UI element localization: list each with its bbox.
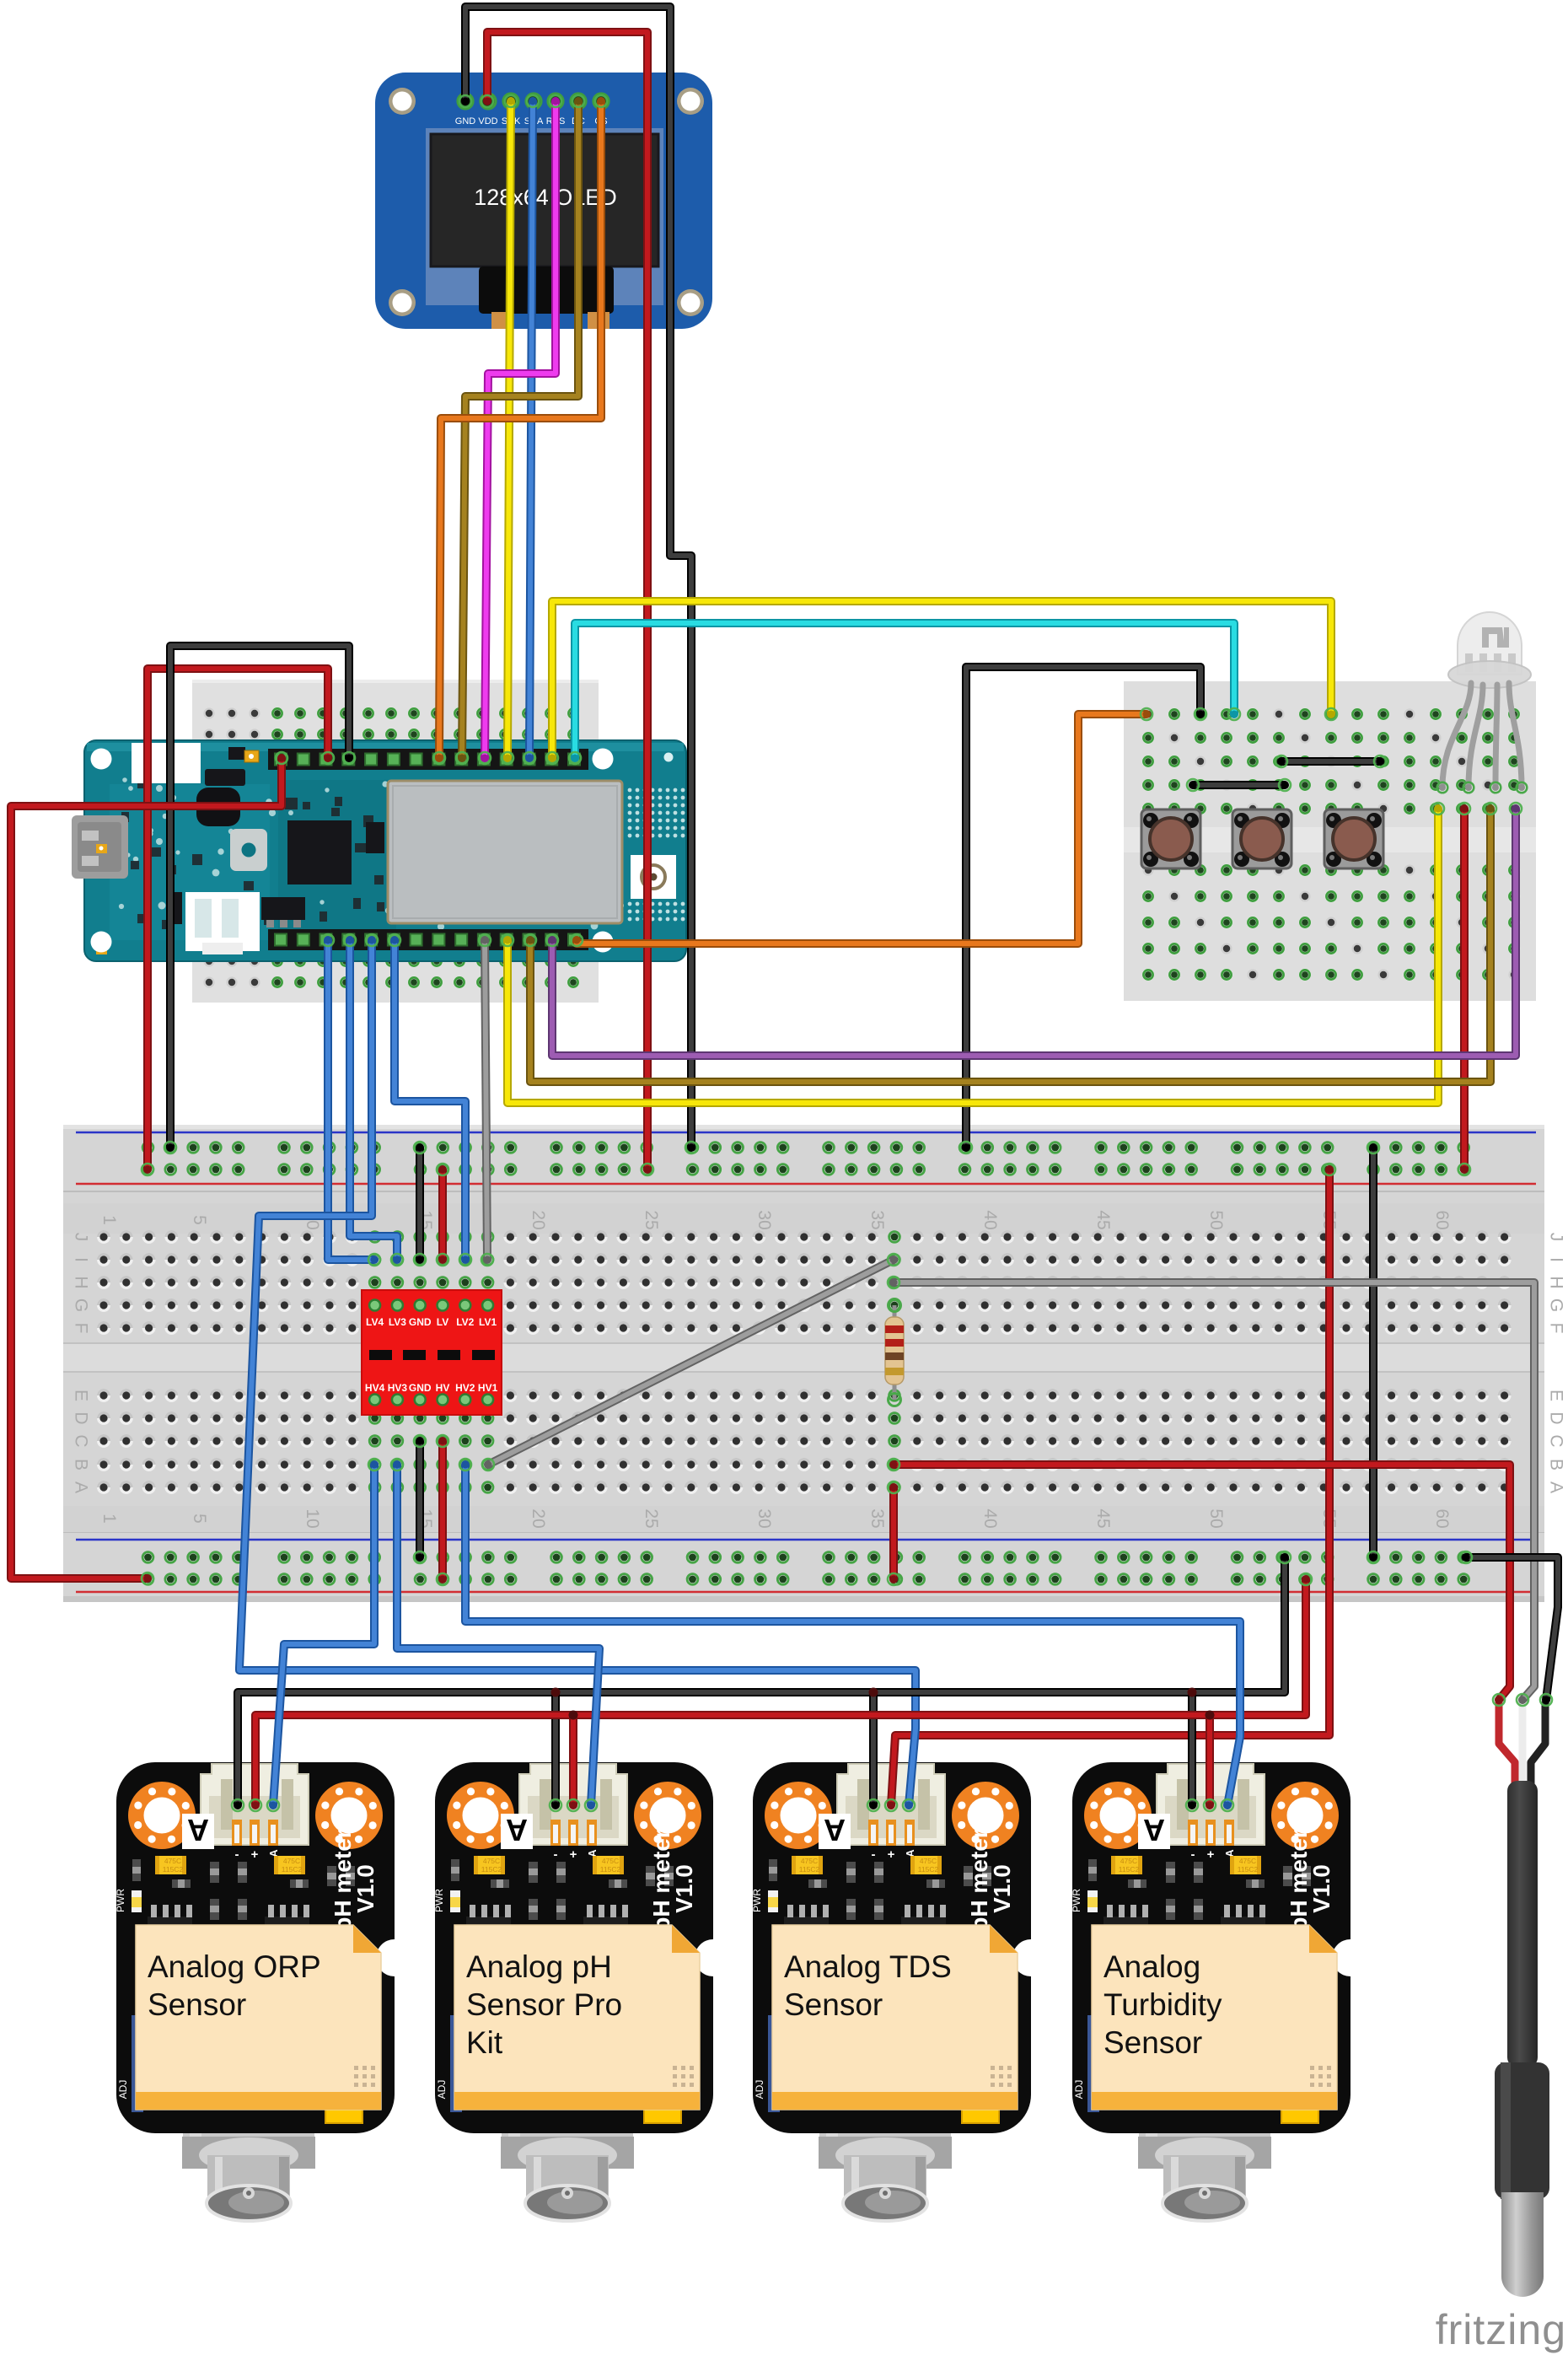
push button S1 (1141, 809, 1200, 868)
analog sensor module (Analog TDS) (751, 1762, 1050, 2221)
svg-text:+: + (251, 1847, 259, 1862)
svg-text:475C: 475C (483, 1857, 500, 1865)
wire purple MKR to LED blue pin (546, 803, 1522, 1056)
svg-text:I: I (71, 1257, 90, 1262)
svg-text:60: 60 (1432, 1210, 1452, 1229)
svg-text:PWR: PWR (751, 1889, 763, 1912)
svg-text:115C2: 115C2 (1119, 1865, 1140, 1874)
wire blue MKR A2 to LV3 (344, 934, 403, 1266)
sensor label note (136, 1925, 381, 2110)
wire blue HV3 to sensor2 A (391, 1459, 599, 1811)
svg-text:PWR: PWR (1071, 1889, 1082, 1912)
svg-text:-: - (235, 1847, 239, 1862)
svg-text:GND: GND (455, 116, 476, 126)
svg-text:VDD: VDD (478, 116, 497, 126)
svg-text:V1.0: V1.0 (352, 1864, 379, 1913)
svg-text:F: F (71, 1323, 90, 1334)
wire black button jumper 2 (1187, 779, 1291, 791)
svg-text:H: H (71, 1276, 90, 1288)
wire orange OLED CS (433, 95, 607, 764)
svg-text:128x64 OLED: 128x64 OLED (474, 185, 617, 210)
svg-text:PWR: PWR (433, 1889, 445, 1912)
svg-text:A: A (187, 1813, 209, 1847)
svg-text:ADJ: ADJ (1073, 2080, 1085, 2100)
wire black buttons loop to - rail (960, 667, 1206, 1153)
buttons breadboard holes (1142, 708, 1521, 981)
svg-text:A: A (506, 1813, 528, 1847)
RGB LED (1437, 612, 1531, 793)
svg-text:F: F (1546, 1323, 1565, 1334)
wire red LLC HV to bottom + rail (437, 1435, 448, 1585)
svg-text:115C2: 115C2 (1238, 1865, 1259, 1874)
svg-text:B: B (1546, 1459, 1565, 1471)
svg-text:475C: 475C (1120, 1857, 1137, 1865)
sensor label note (772, 1925, 1018, 2110)
svg-text:Analog TDS: Analog TDS (784, 1949, 952, 1984)
svg-text:115C2: 115C2 (918, 1865, 939, 1874)
svg-text:HV3: HV3 (388, 1382, 408, 1394)
svg-text:30: 30 (754, 1210, 774, 1229)
wire red OLED VDD to + rail (481, 32, 653, 1175)
svg-text:Analog: Analog (1104, 1949, 1200, 1984)
svg-text:H: H (1546, 1276, 1565, 1288)
wire black LLC GND to bottom - rail (414, 1435, 426, 1563)
wire blue HV2 to sensor4 A (459, 1459, 1240, 1811)
svg-text:30: 30 (754, 1508, 774, 1528)
wire blue MKR A4 to LV2 (389, 934, 471, 1266)
wire olive OLED DC (456, 95, 584, 764)
svg-text:5: 5 (190, 1215, 209, 1225)
svg-text:G: G (1546, 1298, 1565, 1312)
svg-text:HV: HV (436, 1382, 450, 1394)
svg-text:475C: 475C (1239, 1857, 1256, 1865)
svg-text:G: G (71, 1298, 90, 1312)
svg-text:E: E (71, 1390, 90, 1401)
wire junction (569, 1711, 578, 1720)
svg-text:+: + (570, 1847, 577, 1862)
svg-text:LV3: LV3 (389, 1316, 406, 1328)
svg-text:10: 10 (303, 1508, 322, 1528)
svg-text:V1.0: V1.0 (989, 1864, 1015, 1913)
analog sensor module (Analog) (1071, 1762, 1369, 2221)
wire red top rail to sensor3 + bus (885, 1164, 1335, 1811)
wire gray MKR pin to col18 (479, 934, 493, 1266)
svg-text:475C: 475C (920, 1857, 937, 1865)
svg-text:45: 45 (1093, 1508, 1113, 1528)
wire blue HV4 to sensor1 A (267, 1459, 380, 1811)
svg-text:PWR: PWR (115, 1889, 126, 1912)
wire black - rail to LLC GND (414, 1142, 426, 1266)
sensor label note (454, 1925, 700, 2110)
wire gray col36 to probe data (888, 1277, 1534, 1706)
wire black sensor3 gnd stub (867, 1692, 879, 1811)
wire red + rail to LLC LV (437, 1164, 448, 1266)
wire gray diagonal col18 to col36 (482, 1254, 899, 1471)
push button S3 (1324, 809, 1383, 868)
svg-text:Analog ORP: Analog ORP (148, 1949, 321, 1984)
wire junction (1188, 1688, 1197, 1697)
svg-text:115C2: 115C2 (282, 1865, 303, 1874)
resistor R1 (col 36) (885, 1299, 904, 1406)
mini breadboard holes (203, 707, 579, 989)
svg-text:475C: 475C (602, 1857, 619, 1865)
svg-text:Sensor: Sensor (1104, 2025, 1202, 2060)
MKR bottom header (268, 929, 588, 950)
svg-text:115C2: 115C2 (481, 1865, 502, 1874)
buttons mini breadboard (1124, 681, 1536, 1001)
svg-text:D: D (71, 1411, 90, 1424)
svg-text:1: 1 (99, 1215, 119, 1225)
wire magenta OLED RES (479, 95, 561, 764)
svg-text:HV2: HV2 (455, 1382, 475, 1394)
wire red sensor2 pwr stub (567, 1715, 579, 1811)
sensor label note (1092, 1925, 1337, 2110)
wire cyan MKR to button2 (569, 623, 1240, 764)
svg-text:-: - (872, 1847, 876, 1862)
svg-text:60: 60 (1432, 1508, 1452, 1528)
svg-text:ADJ: ADJ (754, 2080, 765, 2100)
wire olive MKR to LED green pin (524, 803, 1496, 1082)
svg-text:GND: GND (409, 1316, 432, 1328)
svg-text:A: A (824, 1813, 846, 1847)
svg-text:475C: 475C (801, 1857, 818, 1865)
svg-text:50: 50 (1206, 1210, 1226, 1229)
svg-text:ADJ: ADJ (117, 2080, 129, 2100)
wire junction (551, 1688, 561, 1697)
wire red col36 to probe vcc (888, 1459, 1510, 1706)
svg-text:475C: 475C (283, 1857, 300, 1865)
main breadboard (63, 1125, 1544, 1602)
wire blue OLED SDA (524, 95, 539, 764)
svg-text:GND: GND (409, 1382, 432, 1394)
svg-text:45: 45 (1093, 1210, 1113, 1229)
logic level converter module (362, 1290, 502, 1415)
wire red col36 to bottom + rail (888, 1481, 899, 1585)
svg-text:+: + (888, 1847, 895, 1862)
svg-text:25: 25 (642, 1508, 661, 1528)
svg-text:Turbidity: Turbidity (1104, 1987, 1222, 2022)
svg-text:D: D (1546, 1411, 1565, 1424)
Arduino MKR board (72, 740, 686, 961)
wire black MKR GND loop to - rail (164, 646, 355, 1153)
svg-text:V1.0: V1.0 (671, 1864, 697, 1913)
analog sensor module (Analog pH) (433, 1762, 732, 2221)
svg-text:20: 20 (529, 1508, 548, 1528)
svg-text:35: 35 (867, 1210, 887, 1229)
wire red sensor power bus (250, 1573, 1312, 1811)
svg-text:Sensor: Sensor (148, 1987, 246, 2022)
wire blue MKR A3 to sensor3 A (239, 934, 916, 1811)
wire orange MKR to buttons col1 (571, 708, 1152, 946)
push button S2 (1232, 809, 1291, 868)
wire black rail-to-rail jumper (1367, 1142, 1379, 1563)
svg-text:50: 50 (1206, 1508, 1226, 1528)
svg-text:LV: LV (437, 1316, 448, 1328)
svg-text:HV1: HV1 (478, 1382, 498, 1394)
svg-text:40: 40 (980, 1508, 1000, 1528)
wire red buttons to + rail (1458, 803, 1470, 1175)
MKR top header (268, 749, 588, 770)
svg-text:LV1: LV1 (479, 1316, 497, 1328)
svg-text:LV4: LV4 (366, 1316, 384, 1328)
wire black button jumper 1 (1275, 755, 1386, 767)
svg-text:A: A (1143, 1813, 1165, 1847)
svg-text:1: 1 (99, 1514, 119, 1524)
svg-text:35: 35 (867, 1508, 887, 1528)
wire junction (1206, 1711, 1215, 1720)
analog sensor module (Analog ORP) (115, 1762, 413, 2221)
svg-text:A: A (1546, 1481, 1565, 1493)
breadboard labels (71, 1210, 1565, 1528)
fritzing watermark (1436, 2306, 1566, 2353)
svg-text:Kit: Kit (466, 2025, 503, 2060)
svg-text:115C2: 115C2 (163, 1865, 184, 1874)
power rail holes (142, 1141, 1471, 1586)
svg-text:40: 40 (980, 1210, 1000, 1229)
wire yellow MKR to LED red pin (502, 803, 1444, 1103)
svg-text:E: E (1546, 1390, 1565, 1401)
wire black bottom rail to probe gnd (1460, 1551, 1558, 1706)
svg-text:J: J (1546, 1233, 1565, 1242)
breadboard hole grid (97, 1230, 1512, 1494)
wire black sensor2 gnd stub (550, 1692, 561, 1811)
svg-text:-: - (1191, 1847, 1195, 1862)
wire red MKR VIN far-left to bottom + rail (11, 752, 287, 1584)
svg-text:fritzing: fritzing (1436, 2306, 1566, 2353)
wire black OLED GND to - rail (459, 7, 697, 1153)
svg-text:LV2: LV2 (456, 1316, 474, 1328)
OLED display board (375, 73, 712, 329)
svg-text:475C: 475C (164, 1857, 181, 1865)
svg-text:V1.0: V1.0 (1308, 1864, 1334, 1913)
wire junction (869, 1688, 878, 1697)
svg-text:5: 5 (190, 1514, 209, 1524)
wire black sensor4 gnd stub (1186, 1692, 1198, 1811)
mini breadboard (under MKR) (192, 680, 599, 1003)
wire blue MKR A1 to LV4 (322, 934, 380, 1266)
wire red MKR 5V loop to + rail (142, 669, 334, 1175)
svg-text:Analog pH: Analog pH (466, 1949, 612, 1984)
temperature probe DS18B20 (1495, 1703, 1549, 2297)
svg-text:Sensor: Sensor (784, 1987, 883, 2022)
wire yellow OLED SCK (502, 95, 517, 764)
svg-text:Sensor Pro: Sensor Pro (466, 1987, 622, 2022)
svg-text:ADJ: ADJ (436, 2080, 448, 2100)
wire black sensor ground bus (232, 1551, 1291, 1811)
svg-text:J: J (71, 1233, 90, 1242)
svg-text:20: 20 (529, 1210, 548, 1229)
svg-text:115C2: 115C2 (799, 1865, 820, 1874)
svg-text:-: - (554, 1847, 558, 1862)
svg-text:A: A (71, 1481, 90, 1493)
svg-text:C: C (1546, 1434, 1565, 1447)
svg-text:25: 25 (642, 1210, 661, 1229)
wire red sensor4 pwr stub (1204, 1715, 1216, 1811)
svg-text:I: I (1546, 1257, 1565, 1262)
wire yellow MKR to button1 (546, 601, 1337, 764)
svg-text:115C2: 115C2 (600, 1865, 621, 1874)
svg-text:HV4: HV4 (365, 1382, 385, 1394)
svg-text:C: C (71, 1434, 90, 1447)
svg-text:+: + (1207, 1847, 1215, 1862)
svg-text:B: B (71, 1459, 90, 1471)
